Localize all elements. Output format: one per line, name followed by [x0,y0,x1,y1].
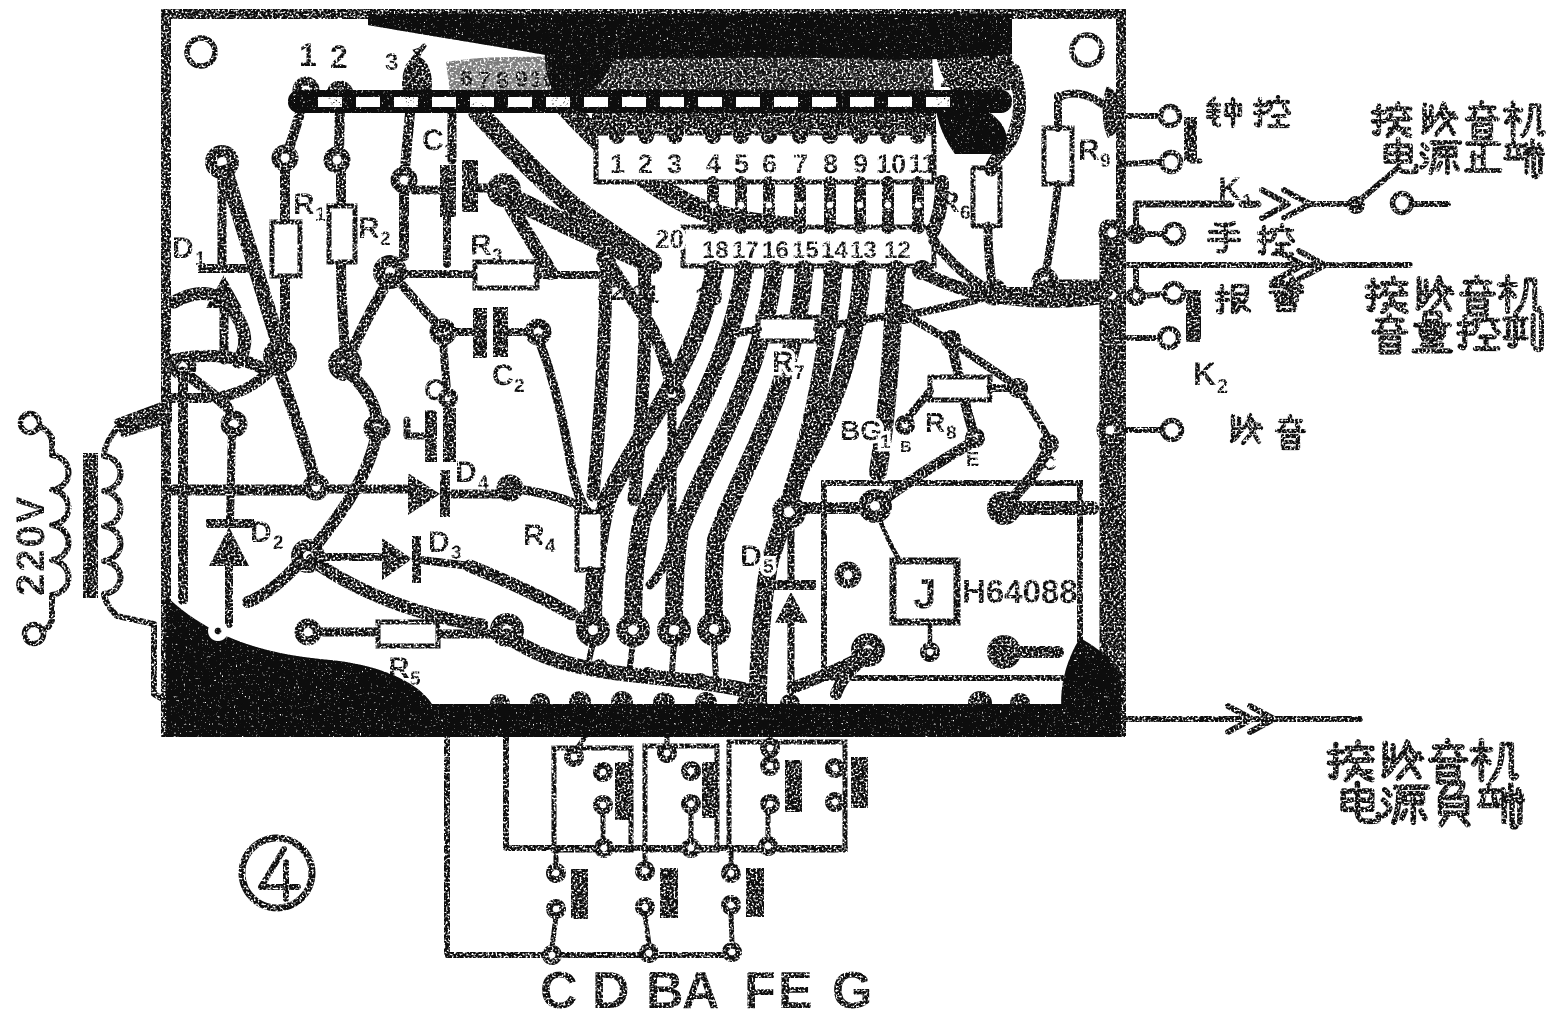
svg-text:G: G [832,962,872,1020]
wire left web 2 [172,393,226,403]
wire diagonal swath upper [470,566,572,614]
svg-text:4: 4 [545,536,556,557]
svg-text:13: 13 [850,237,877,264]
svg-text:220V: 220V [9,495,53,596]
label 收音 [1232,415,1261,443]
pad chain2 [941,330,961,350]
svg-text:5: 5 [734,149,749,179]
svg-text:R: R [1078,134,1100,167]
svg-text:15: 15 [700,64,726,90]
IC block lower pin numbers [702,237,911,264]
relay pad bottom-right [987,635,1021,669]
pad D4 right [497,475,524,502]
pad C3 top [438,388,458,408]
svg-text:3: 3 [667,149,682,179]
capacitor C1 [440,165,456,217]
pad BG1 E [965,428,985,448]
pad web left [170,354,197,381]
diode D1 [222,170,224,360]
wire R9 top [1054,96,1062,128]
terminal manual [1165,225,1184,244]
transformer secondary coil [104,428,121,616]
svg-text:3: 3 [446,391,457,412]
svg-text:E: E [778,962,813,1020]
wire left serpent upper [174,293,245,362]
volume chevrons [1277,251,1325,279]
smudged band under numbers 11-21 [446,56,560,92]
svg-text:R: R [772,346,794,379]
figure number circled 4 [242,838,312,908]
svg-text:D: D [592,962,630,1020]
switch wire left long [447,734,552,955]
svg-text:16: 16 [723,64,749,90]
wire R4 bottom [586,570,594,615]
fan bottom pads [576,613,610,647]
relay corner blob heavy pass [1061,638,1121,712]
terminal clock 1 [1161,107,1180,126]
terminal wire clock 2 [1125,162,1160,164]
svg-text:20: 20 [827,65,853,91]
wire R1pad down to D4 row [276,362,315,480]
pad C2 left [430,319,457,346]
svg-text:E: E [966,449,979,471]
pad R1 bottom [263,339,297,373]
lower contact pair 2 [635,861,655,881]
bus bar trace with dashes [288,90,1012,113]
label 电源正端 [1386,139,1543,177]
svg-text:C: C [424,374,446,407]
wire chain2 to R8 right [951,342,1016,386]
fan trace F [789,272,862,510]
border bumps [490,694,510,714]
relay inner pad [835,562,862,589]
K1 dashed wire [1136,201,1210,208]
lower contact pair 3 [721,863,741,883]
svg-text:9: 9 [515,66,528,92]
resistor R7 [758,317,817,341]
svg-text:H64088: H64088 [962,573,1078,610]
label 钟控 [1208,98,1240,126]
IC connector block upper [596,133,934,182]
pad right edge 2 [1099,282,1126,309]
wire left edge to D4 pad [172,485,304,496]
fan trace G [878,272,896,472]
wire C1 left [414,186,440,195]
resistor R6 [973,168,1000,226]
wire relay tl pad to D5 pad [805,502,860,514]
pad right edge 1 [1099,220,1126,247]
svg-text:8: 8 [823,149,838,179]
bottom border band [166,704,1121,737]
svg-text:2: 2 [514,376,525,397]
wire C3 left [407,420,425,436]
clock contact bar [1184,117,1197,161]
svg-text:8: 8 [946,423,957,444]
svg-text:A: A [682,962,720,1020]
svg-text:7: 7 [794,363,805,384]
fan trace A [593,270,714,624]
svg-text:D: D [455,456,477,489]
wire strand from pad21 [634,266,645,500]
pad R9 bottom [1032,268,1059,295]
wire mid vertical [650,402,672,585]
wire C1 bar bottom down [443,216,451,264]
relay bottom-right copper blob [1061,638,1121,712]
svg-text:J: J [913,570,936,617]
svg-text:B: B [646,962,684,1020]
svg-text:R: R [358,212,380,245]
wire strand from pad22 [593,264,606,495]
svg-text:D: D [250,516,272,549]
lower contact pair 1 [546,863,566,883]
pad alarm left [1126,286,1146,306]
wire left web 1 [172,356,266,370]
PCB board outline [166,14,1121,732]
bottom band heavy pass [166,704,1121,737]
wire C2 right [508,328,528,336]
resistor R5 leads [322,632,494,634]
K1 chevrons [1262,190,1310,218]
switch wire bus [506,734,845,848]
wire bus to C1 left pad [405,113,410,170]
IC block upper pin numbers [610,149,937,179]
svg-text:6: 6 [960,203,971,224]
svg-text:BG: BG [840,415,882,446]
svg-text:18: 18 [702,237,729,264]
svg-text:C: C [422,124,444,157]
wire R9 top to blob [1058,93,1102,104]
switch box 2 [645,746,717,850]
pad chain [894,304,914,324]
pin 22 21 19 labels [597,278,723,311]
wavy secondary band [507,636,761,707]
relay pad bottom-left [851,633,885,667]
wire chain to R6 pad [904,296,988,316]
svg-text:1: 1 [299,37,317,73]
label 手控 [1209,223,1239,252]
wire pad12 to right edge [922,272,1110,301]
wire D1 diagonal [226,172,280,348]
pad branch [364,415,391,442]
wire R8 left [906,391,930,420]
wire R6 pad to border [994,287,1108,297]
svg-text:10: 10 [876,149,906,179]
capacitor C3 [425,410,437,462]
svg-text:K: K [1193,356,1216,392]
copper band right segment [935,48,1014,92]
label 报警 [1217,286,1249,312]
copper blob below top band [545,50,618,102]
pad R2 bottom [328,347,362,381]
svg-text:R: R [470,229,492,262]
pad R2 top [324,147,351,174]
resistor R2 [329,206,355,262]
svg-text:14: 14 [821,237,848,264]
terminal radio [1163,421,1182,440]
wire branch to D3 blob [314,432,377,548]
wire C2 to C3 [443,338,447,392]
svg-text:3: 3 [385,49,398,76]
pad in pour [208,621,228,641]
svg-text:R: R [293,188,315,221]
wire D4 pad to R4 [510,488,588,512]
svg-text:2: 2 [330,39,348,75]
wire block2 right down [933,240,990,291]
wire band swath to block2 [562,102,790,227]
svg-text:6: 6 [460,65,473,91]
transformer terminal top [21,414,40,433]
wire relay bottom-right stub [1004,646,1058,658]
stubs pads to band [588,641,716,678]
wire C2 left [452,328,473,336]
svg-text:20: 20 [655,224,684,254]
pad D4 left [303,474,330,501]
wire R8 right [990,384,1014,392]
wire E pad to relay [875,442,973,506]
wire relay bl pad to border [836,656,868,694]
resistor R3 [403,270,475,278]
junction dot [1126,224,1146,244]
wire web to D2 [183,372,228,408]
bottom bus wire [552,952,732,958]
alarm contact bar [1186,290,1201,342]
label 接收音机 top [1373,102,1543,138]
wire diagonal swath lower [312,560,482,625]
pad D1 top [205,145,239,179]
pad mid fan [659,381,686,408]
pad D2 top [221,411,248,438]
pads under lower block [704,260,724,280]
pad relay coil bottom [920,642,940,662]
pad C1 left [391,167,418,194]
copper blob band to bar [402,57,432,111]
pad BG1 C [1039,434,1059,454]
relay outline [824,483,1080,678]
svg-text:18: 18 [774,65,800,91]
wire mid pad up [612,268,672,388]
pad 22 [596,249,616,269]
wire R6 bottom [988,226,992,282]
svg-text:2: 2 [273,533,284,554]
transformer core [83,453,98,598]
bottom-left pour heavy pass [166,596,434,708]
wire left inner vertical [178,374,188,600]
wire junction to R2 pad [349,278,390,358]
wire D4 left [329,485,406,494]
wire R2pad to C-branch [345,368,377,424]
copper mass right of block1 [935,92,1007,154]
wire C1 pad to pin20 [512,198,652,264]
wire C1 right [478,184,496,193]
relay coil box J [893,561,957,622]
comb band above IC block [592,106,936,136]
terminal clock 2 [1162,153,1181,172]
svg-text:1: 1 [610,149,625,179]
diode D2 [229,430,232,624]
svg-text:C: C [540,962,578,1020]
wire D3 lead [322,553,380,561]
switch box 1 [554,748,631,850]
svg-text:9: 9 [853,149,868,179]
right vertical trace [1100,228,1117,710]
bottom-left copper pour [166,596,434,708]
wire top right curves [991,70,1020,170]
pad C1 right [487,173,521,207]
svg-text:6: 6 [762,149,777,179]
pad R4 bottom [576,609,603,636]
fan trace C [674,270,774,624]
svg-text:D: D [428,526,450,559]
svg-text:R: R [523,519,545,552]
mounting hole top-right [1072,35,1102,65]
svg-text:3: 3 [492,246,503,267]
svg-text:1: 1 [880,432,891,453]
svg-text:16: 16 [762,237,789,264]
pad D5 top [772,495,806,529]
svg-text:14: 14 [676,64,702,90]
pad R8 right [1008,378,1028,398]
fan trace E [758,272,833,700]
pad 21 [634,252,654,272]
terminal alarm 1 [1165,284,1184,303]
wire C pad to relay [1006,446,1049,506]
svg-text:D: D [172,232,194,265]
pad R5 right [490,613,524,647]
pad R1 top [272,145,299,172]
wire R8 to C pad [1018,388,1049,440]
svg-text:C: C [492,359,514,392]
wire junction to C2 [396,278,443,329]
wire R7 left [735,329,758,334]
pad D3 left blob [291,539,325,573]
svg-text:7: 7 [793,149,808,179]
wire relay bl pad left along border [792,654,868,688]
wire R7 right [817,322,851,329]
svg-text:24: 24 [940,63,969,93]
pad C2 right [525,319,552,346]
svg-text:B: B [900,439,912,456]
svg-text:19: 19 [800,65,826,91]
wire R1pad web [224,360,280,396]
wire R7 chain [857,315,898,320]
K1 switch arm [1360,168,1398,200]
R3 junction pad [373,255,407,289]
K1 pivot [1347,196,1365,214]
pin stubs between blocks [713,182,918,227]
terminal wire clock 1 [1125,113,1158,119]
diode D4 [408,473,440,515]
pad R7 right [847,310,867,330]
top copper band heavy pass [368,14,1012,60]
transformer primary coil [52,438,69,612]
resistor R1 leads [285,94,306,348]
svg-text:R: R [925,407,945,438]
terminal alarm 2 [1160,329,1179,348]
copper blob right border top [1103,86,1122,138]
capacitor C2 [473,308,487,358]
wire to BG1 cluster [951,342,975,436]
svg-text:4: 4 [706,149,721,179]
relay pad top-right [987,491,1021,525]
fan trace D [714,272,804,624]
svg-text:R: R [938,186,960,219]
wire secondary to board top [113,398,172,438]
resistor R9 [1044,128,1072,184]
bottom letters C D B A F E G [540,962,872,1020]
resistor R5 [378,622,438,646]
pad R6 bottom [981,279,1008,306]
svg-text:11: 11 [908,149,937,179]
svg-text:12: 12 [884,237,911,264]
svg-text:17: 17 [746,64,772,90]
IC connector block lower [683,227,934,266]
wire D3 right [421,560,470,566]
pad right edge 3 [1097,417,1124,444]
resistor R4 [577,512,603,570]
diode D5 [740,540,774,578]
wire blob left [248,562,300,602]
wire R9 bottom [1046,184,1058,270]
wire relay top-right stub [1004,501,1092,515]
wire R9 pad to border [1045,280,1104,289]
wire secondary to board bottom [117,616,168,702]
wire chain down [904,314,945,338]
wire C1 left pad to junction [399,192,409,256]
label 接收音机 mid [1367,276,1539,314]
switch box 3 [729,742,845,850]
wire C1 top [448,109,457,160]
relay pad top-left [858,489,892,523]
diode D3 [382,538,412,580]
pad R5 left [295,619,322,646]
label 音量控制 [1374,313,1542,352]
top row pin numbers 11-21 and 24 [601,63,880,91]
K1 open contact [1393,194,1412,213]
wire relay coil bottom [928,622,933,648]
pad BG1 B [895,415,915,435]
svg-text:13: 13 [652,64,678,90]
svg-text:12: 12 [626,63,652,89]
svg-text:7: 7 [478,67,491,93]
wire C2 pad to R4 top [538,338,588,512]
svg-text:2: 2 [638,149,653,179]
svg-text:D: D [740,540,762,573]
svg-text:8: 8 [496,67,509,93]
wire mass to block2 right [933,182,942,231]
resistor R1 [272,222,300,276]
label 接收音机 bottom [1329,741,1516,783]
label 电源负端 [1343,783,1522,827]
wire C1 pad to R3 junction [504,194,551,273]
transistor BG1 label [840,415,891,453]
svg-text:17: 17 [732,237,759,264]
wire bus to pin20 [478,112,652,262]
top copper pour band [368,14,1012,60]
svg-text:21: 21 [854,65,880,91]
top row pin numbers 6-10 [460,65,556,93]
svg-text:F: F [744,962,776,1020]
svg-text:5: 5 [763,557,774,578]
bus bar heavy pass [288,90,1012,113]
volume arrow wire [1125,265,1410,292]
transformer terminal bottom [25,625,44,644]
svg-text:2: 2 [380,229,391,250]
pin 1 pad [293,77,320,104]
fan trace B [633,270,744,624]
mounting hole top-left [187,38,215,66]
pin 2 pad [327,81,354,108]
resistor R8 [930,377,990,400]
